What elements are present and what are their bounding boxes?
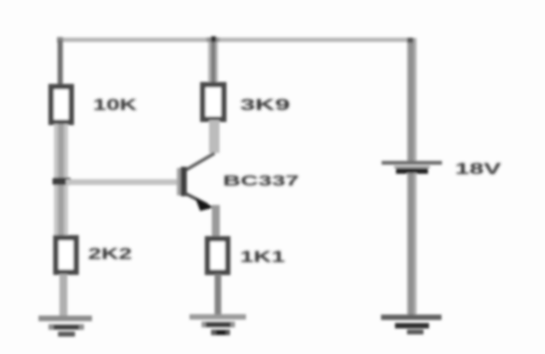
wire: top supply rail (57, 38, 413, 42)
ground: middle (bar 3 dark core) (216, 330, 226, 334)
ground: middle (bar 2) (202, 322, 236, 328)
svg-text:2K2: 2K2 (88, 246, 132, 263)
resistor R4 1K1 (208, 239, 228, 273)
ground: left (bar 3) (58, 332, 75, 337)
svg-text:BC337: BC337 (223, 173, 299, 190)
wire: left branch, node A to R2 (54, 185, 68, 237)
node: top-right corner junction (407, 38, 413, 43)
svg-text:3K9: 3K9 (240, 97, 290, 114)
wire: R4 to ground (215, 274, 222, 315)
ground: middle (bar 3) (211, 330, 230, 336)
ground: left (bar 1) (39, 316, 93, 322)
battery B1 negative plate (short, thick) (396, 168, 428, 174)
node A: divider junction (53, 178, 72, 186)
ground: left (bar 2) (49, 324, 85, 330)
svg-text:10K: 10K (93, 97, 138, 114)
ground: right (bar 2) (395, 323, 429, 328)
transistor Q1 emitter lead (185, 193, 208, 205)
ground: right (bar 1) (381, 315, 442, 320)
wire: collector branch, rail to R3 (208, 42, 218, 84)
battery B1 negative plate halo (394, 166, 430, 169)
wire: emitter to R4 (212, 205, 220, 237)
svg-text:1K1: 1K1 (240, 249, 285, 266)
wire: left branch, rail to R1 (58, 40, 63, 86)
transistor Q1 collector lead (186, 153, 214, 170)
wire: collector branch, R3 to Q1 collector (209, 120, 220, 153)
node: top rail to collector branch junction (207, 37, 220, 42)
wire: base wire from node A to Q1 (66, 179, 182, 185)
transistor Q1 base bar (177, 168, 181, 195)
wire: left branch, R1 to node A (54, 124, 68, 180)
resistor R1 (51, 87, 71, 123)
ground: middle (bar 1) (190, 314, 247, 319)
transistor Q1 emitter arrowhead (195, 198, 214, 211)
ground: right (bar 3) (407, 330, 424, 335)
wire: battery to ground (407, 173, 417, 317)
wire: right branch from rail to battery (407, 38, 417, 161)
svg-text:18V: 18V (455, 161, 502, 178)
wire: left branch, R2 to ground (59, 274, 67, 317)
battery B1 positive plate (long) (382, 161, 442, 165)
resistor R2 2K2 (56, 238, 76, 272)
node: top-left corner junction (57, 37, 63, 42)
resistor R3 3K9 (203, 85, 224, 120)
